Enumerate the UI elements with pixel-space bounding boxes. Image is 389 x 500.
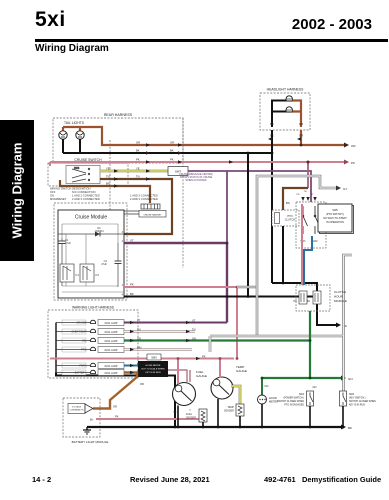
svg-text:B+: B+ [90, 418, 94, 422]
svg-text:#194 LAMP: #194 LAMP [104, 372, 117, 375]
wire YE temp gauge to sender [231, 386, 240, 404]
junction BK x317 [316, 295, 319, 298]
arrow BK pto [336, 323, 341, 328]
label SVS key switch note [349, 394, 376, 407]
junction bus dots [174, 426, 345, 429]
connector symbols warning rows [130, 321, 200, 374]
wire TN cruise switch to module pin 3 [100, 179, 172, 234]
junction BK x272 [271, 152, 274, 155]
svg-text:Cruise Module: Cruise Module [75, 215, 107, 221]
svg-text:BK: BK [270, 122, 274, 126]
wire VT SMT to switch cluster [188, 171, 311, 243]
svg-text:BATTERY: BATTERY [75, 372, 87, 375]
svg-text:SW2: SW2 [312, 240, 318, 243]
svg-text:OR: OR [137, 369, 141, 373]
svg-text:BK: BK [270, 134, 274, 138]
wire BK fuel sender ground [202, 422, 204, 427]
wire OR battery lamp to battery module [93, 373, 137, 409]
wire OR tail lights to right edge [63, 127, 344, 145]
wire PK warning harness feed bus [50, 358, 234, 360]
switch SW4 sms pto [307, 391, 314, 406]
svg-text:SMS: SMS [151, 356, 157, 360]
svg-text:TN: TN [136, 175, 140, 179]
svg-text:CLUTCH: CLUTCH [334, 290, 346, 294]
labels above switch cluster [297, 191, 315, 196]
svg-text:TN: TN [304, 191, 307, 193]
wire PK pto switch drop [301, 204, 303, 285]
arrow GY [336, 186, 341, 191]
label SMS power note [277, 394, 305, 407]
battery light module box [63, 398, 108, 444]
relay K1 [60, 264, 79, 282]
svg-text:BATTERY LIGHT MODULE: BATTERY LIGHT MODULE [72, 440, 109, 444]
cruise magnet label box [139, 211, 166, 218]
svg-text:#194 LAMP: #194 LAMP [104, 340, 117, 343]
svg-text:KEY IS IN RUN: KEY IS IN RUN [145, 372, 161, 374]
svg-text:HEADLIGHT HARNESS: HEADLIGHT HARNESS [267, 88, 304, 92]
svg-text:BU: BU [137, 362, 141, 366]
svg-text:MOM/RESET: MOM/RESET [50, 197, 67, 201]
svg-text:SW6: SW6 [349, 394, 355, 396]
svg-text:COMPARATOR: COMPARATOR [69, 409, 84, 412]
svg-text:BN: BN [106, 182, 110, 186]
svg-text:TN: TN [137, 328, 141, 332]
wire BK headlight drop to lower network [271, 130, 273, 283]
wire GY stub to temp area [209, 336, 212, 352]
wire PK drop to clutch feed [307, 162, 309, 188]
junction VT [226, 242, 229, 245]
wire VT cruise module to cruise lamp [124, 243, 227, 323]
svg-text:CLUTCH: CLUTCH [285, 218, 296, 222]
svg-text:BK: BK [348, 426, 352, 430]
svg-text:GN: GN [137, 337, 141, 341]
tail light bulb L2 [76, 131, 84, 139]
harness boundary dashed line x183 [182, 118, 184, 268]
solenoid S1 [299, 291, 307, 304]
svg-text:SENDER: SENDER [224, 410, 234, 413]
svg-text:PK: PK [297, 194, 300, 196]
svg-text:SWITCH CLOSED WHEN: SWITCH CLOSED WHEN [277, 401, 304, 403]
label cruise message center [179, 173, 213, 182]
wire BK main ground bus [87, 426, 341, 428]
capacitor C1 [59, 238, 72, 286]
cruise module internal top bus [62, 224, 118, 243]
pto clutch box [272, 210, 299, 226]
svg-text:SW5: SW5 [332, 209, 338, 212]
wire WH pto lamp [124, 348, 192, 350]
wire BK tail lights ground [63, 139, 272, 153]
wire GY sensor loop [257, 176, 336, 336]
wire BK fuel gauge ground [177, 406, 179, 428]
hour meter M1 [258, 378, 279, 404]
svg-text:HOUR: HOUR [269, 396, 277, 400]
wire GN clutch module down [309, 311, 311, 378]
svg-text:SW4: SW4 [299, 394, 305, 396]
wire to cruise magnet [124, 211, 141, 214]
svg-text:GN: GN [192, 337, 196, 341]
lamp row PTO [56, 347, 124, 353]
wire PK fuel gauge feed [177, 359, 179, 385]
svg-text:PK: PK [294, 299, 298, 303]
connector symbols on runs [114, 137, 301, 188]
lamp row BATTERY [56, 370, 124, 376]
junction GN x310 [309, 377, 312, 380]
switch designation table [50, 187, 158, 202]
svg-text:2 AND 3 CONNECTED: 2 AND 3 CONNECTED [72, 197, 100, 201]
svg-text:#194 LAMP: #194 LAMP [104, 331, 117, 334]
wire BK temp sender ground [239, 416, 241, 427]
cruise switch box [48, 158, 128, 186]
svg-text:YE: YE [136, 167, 140, 171]
svg-text:47uF: 47uF [101, 262, 107, 266]
svg-text:K1: K1 [76, 273, 80, 277]
switch SW1 [300, 206, 307, 243]
arrow BK ground bus [341, 425, 346, 430]
switch cluster box [296, 202, 326, 248]
svg-text:CRUISE: CRUISE [77, 322, 87, 325]
wire BK temp gauge ground [217, 399, 219, 427]
resistor R1 cruise magnet coil [141, 204, 160, 209]
svg-text:OR: OR [140, 382, 144, 386]
svg-text:PK: PK [170, 158, 174, 162]
svg-text:PARK: PARK [79, 365, 86, 368]
svg-text:OR: OR [170, 141, 174, 145]
svg-text:BN: BN [286, 201, 290, 205]
switch SW2 [312, 206, 319, 243]
wire BU switch to clutch hour module [304, 236, 312, 285]
warning light harness box [48, 306, 138, 379]
svg-text:OR: OR [299, 122, 303, 126]
voltage comparator U3 [68, 404, 93, 414]
svg-text:SW3: SW3 [74, 167, 80, 170]
svg-text:TN: TN [192, 328, 196, 332]
clutch hour module box [296, 285, 347, 311]
svg-text:SENDER: SENDER [186, 417, 196, 420]
wire BK warning harness ground out [56, 373, 175, 428]
svg-text:1 AND 2 CONNECTED: 1 AND 2 CONNECTED [72, 194, 100, 198]
SMS tag box [147, 354, 161, 360]
svg-text:VT: VT [311, 194, 314, 196]
svg-text:PK: PK [202, 355, 206, 359]
switch SW6 key [340, 391, 347, 406]
junction PK x308 [307, 161, 310, 164]
svg-text:OFF: OFF [50, 190, 56, 194]
wire PK battery module to senders [96, 418, 199, 420]
svg-text:OR: OR [351, 144, 356, 148]
cruise module internal wiring [62, 234, 124, 292]
headlight bulb H2 [286, 107, 292, 112]
svg-text:WH: WH [137, 346, 141, 350]
svg-text:GAUGE: GAUGE [236, 369, 247, 373]
junction GN row [309, 339, 312, 342]
svg-text:#194 LAMP: #194 LAMP [104, 349, 117, 352]
svg-text:N/C CONNECTION: N/C CONNECTION [72, 190, 96, 194]
svg-text:NO WAIT-TO-START: NO WAIT-TO-START [323, 217, 347, 220]
svg-text:BK: BK [170, 149, 174, 153]
ground battery module [83, 427, 91, 434]
svg-text:OR: OR [113, 405, 117, 409]
wire BK sw4 ground [309, 406, 311, 427]
wire BK sw6 ground [342, 406, 344, 427]
wire PK temp gauge feed [219, 359, 221, 378]
svg-text:OVER TEMP: OVER TEMP [71, 331, 86, 334]
svg-text:CRUISE MAGNET: CRUISE MAGNET [143, 213, 162, 216]
headlight harness box [260, 88, 310, 131]
lamp row OVER TEMP [56, 329, 124, 335]
wire OR headlights [292, 101, 301, 128]
wire BN cruise switch loop to module [60, 180, 150, 203]
wire BK cruise module ground run [124, 296, 317, 298]
wire YE cruise switch to SMT [100, 170, 168, 173]
hour meter note black box [138, 361, 168, 377]
junction BK x248 bottom [247, 295, 250, 298]
svg-text:PK: PK [115, 415, 119, 419]
solenoid S2 [313, 291, 321, 304]
wire BK hour meter ground [261, 404, 263, 427]
svg-text:GN: GN [313, 385, 317, 389]
svg-text:KEY IS IN RUN: KEY IS IN RUN [349, 405, 365, 407]
connector stubs above switch cluster [301, 197, 316, 201]
arrow PK main run [344, 160, 349, 165]
svg-text:(KEY SWITCH ): (KEY SWITCH ) [349, 398, 366, 400]
svg-text:MODULE: MODULE [334, 299, 347, 303]
cruise module U2 box [58, 210, 124, 298]
svg-text:GN: GN [265, 384, 269, 388]
svg-text:HOUR: HOUR [334, 295, 344, 299]
wire labels OR run [106, 141, 174, 186]
capacitor C2 [101, 243, 121, 287]
svg-text:ON: ON [50, 194, 54, 198]
svg-text:OIL: OIL [82, 340, 87, 343]
wire BK headlights [272, 101, 286, 128]
wire PK cruise module to lamp bus [124, 287, 237, 359]
svg-text:NOT TO SCALE WHEN: NOT TO SCALE WHEN [141, 368, 165, 371]
wire WH over temp lamp [124, 330, 195, 332]
svg-text:HOUR METER: HOUR METER [146, 365, 161, 367]
svg-text:SWITCH CLOSED WHEN: SWITCH CLOSED WHEN [349, 401, 376, 403]
wire BN pto clutch feed [283, 188, 308, 210]
svg-text:G: G [189, 410, 191, 412]
svg-text:BK: BK [136, 149, 140, 153]
headlight bulb H1 [286, 96, 292, 101]
svg-text:1N4004: 1N4004 [94, 229, 104, 233]
wire GN oil lamp to pto switch [124, 339, 310, 341]
svg-text:VT: VT [130, 239, 134, 243]
wire BK vertical link x248 [247, 153, 249, 297]
SMS pto switch note box [318, 204, 354, 234]
wire PK cruise switch to right edge [50, 162, 344, 166]
svg-text:PTO: PTO [81, 349, 86, 352]
svg-text:PK: PK [351, 161, 355, 165]
wire BK pto clutch to arrow [272, 226, 336, 325]
svg-text:VOLTAGE: VOLTAGE [72, 406, 82, 409]
pin 3 stub [124, 233, 127, 235]
svg-text:PK: PK [136, 158, 140, 162]
wire OR headlight drop to OR run [300, 130, 302, 145]
svg-text:PK: PK [130, 283, 134, 287]
warning row labels right [137, 319, 206, 386]
tail light bulb L1 [59, 131, 67, 139]
svg-text:TAIL LIGHTS: TAIL LIGHTS [64, 121, 85, 125]
arrow GN [341, 376, 346, 381]
svg-text:TN: TN [106, 175, 110, 179]
svg-text:PTO IS ENGAGED: PTO IS ENGAGED [284, 404, 304, 407]
warning lamp bus [55, 323, 57, 373]
svg-text:K2: K2 [96, 273, 100, 277]
svg-text:GAUGE: GAUGE [196, 374, 207, 378]
wire GY lower loop [210, 255, 352, 336]
fuel sender R2 [186, 409, 207, 422]
svg-text:GY: GY [343, 187, 347, 191]
svg-text:VT: VT [192, 319, 196, 323]
svg-text:OR: OR [299, 134, 303, 138]
fuel gauge G1 [173, 370, 207, 414]
cruise switch SW3 body [66, 166, 100, 184]
svg-text:OR: OR [136, 141, 140, 145]
junction BK tail bus [247, 152, 250, 155]
svg-text:YE: YE [106, 167, 110, 171]
svg-text:BK: BK [130, 292, 134, 296]
svg-text:PTO: PTO [287, 214, 292, 218]
lamp row CRUISE [56, 320, 124, 326]
junction GN x262 [261, 377, 264, 380]
cruise module dashed boundary [54, 203, 127, 300]
arrow OR main run [344, 143, 349, 148]
svg-text:#194 LAMP: #194 LAMP [104, 365, 117, 368]
svg-text:IN OPERATION: IN OPERATION [326, 221, 344, 224]
svg-text:S/C: S/C [173, 412, 177, 414]
SMT module box [168, 167, 188, 176]
diode D1 [58, 226, 124, 237]
harness boundary dashed line x110 [109, 140, 111, 212]
svg-text:(POWER SWITCH ): (POWER SWITCH ) [283, 398, 304, 400]
junction PK fuel [177, 357, 180, 360]
lamp row OIL [56, 338, 124, 344]
svg-text:(PTO SWITCH ): (PTO SWITCH ) [326, 213, 344, 216]
junction PK temp [219, 357, 222, 360]
wire GY link from pink splice [237, 286, 257, 288]
wire PK black box to gauge terminal [168, 370, 190, 382]
junction PK x234 [236, 357, 239, 360]
pin numbers [122, 231, 124, 297]
junction OR headlight [300, 144, 303, 147]
wire BU park lamp [124, 365, 138, 367]
rear harness box [53, 113, 183, 163]
svg-text:WIRING SWITCH DESIGNATION: WIRING SWITCH DESIGNATION [50, 187, 90, 191]
svg-text:1 AND 3 CONNECTED: 1 AND 3 CONNECTED [130, 194, 158, 198]
wire VT cruise lamp [124, 322, 227, 324]
svg-text:VT: VT [137, 319, 141, 323]
svg-text:GN: GN [348, 377, 353, 381]
svg-text:2 AND 3 CONNECTED: 2 AND 3 CONNECTED [130, 197, 158, 201]
svg-text:WARNING LIGHT HARNESS: WARNING LIGHT HARNESS [72, 306, 114, 310]
svg-text:WHEN ACTIVATED: WHEN ACTIVATED [186, 179, 207, 182]
relay K2 [80, 264, 99, 282]
svg-text:#194 LAMP: #194 LAMP [104, 322, 117, 325]
wire GY key switch drop [342, 336, 345, 391]
wire GN bottom run [262, 377, 341, 379]
temp gauge G2 [211, 365, 247, 399]
temp sender R3 [224, 404, 244, 416]
svg-text:REAR HARNESS: REAR HARNESS [104, 113, 133, 117]
lamp row PARK [56, 363, 124, 369]
